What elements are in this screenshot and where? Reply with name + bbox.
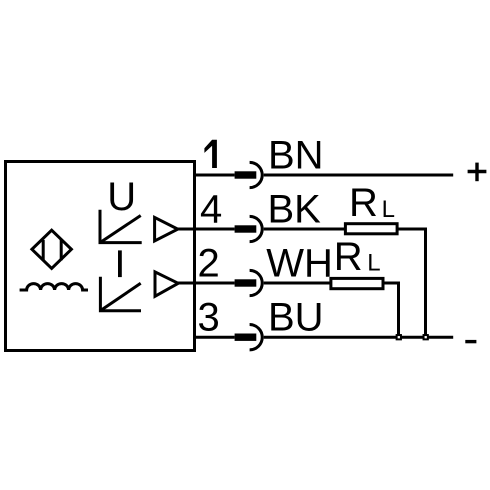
svg-text:U: U [107,175,136,219]
svg-text:WH: WH [266,242,333,286]
svg-text:BU: BU [268,296,324,340]
svg-text:L: L [367,250,380,277]
svg-text:R: R [349,181,378,225]
svg-text:2: 2 [198,242,220,286]
svg-text:R: R [334,235,363,279]
svg-text:L: L [382,196,395,223]
svg-text:4: 4 [200,188,222,232]
svg-text:BK: BK [268,188,322,232]
svg-text:3: 3 [198,296,220,340]
svg-text:BN: BN [268,134,324,178]
